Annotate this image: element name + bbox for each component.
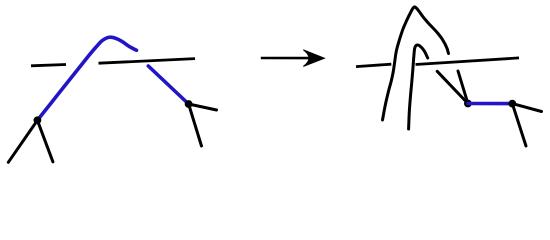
arrow between diagrams: shaft [261, 57, 310, 60]
right diagram: vertex V3 dot [464, 100, 472, 108]
left diagram: vertex V2 dot [185, 100, 193, 108]
right diagram: V4 leg down [512, 104, 526, 146]
right diagram: blue edge (now slid below the strand) [468, 102, 512, 106]
right diagram: small arch lower continuation below strand to vertex V3 [437, 71, 468, 103]
left diagram: horizontal strand, main right piece [99, 59, 196, 64]
left diagram: V1 leg down-right [37, 120, 53, 162]
left diagram: V1 leg down-left [8, 120, 37, 162]
right diagram: big arch (leg of vertex V3 pulled over the strand), upper part [383, 7, 449, 120]
left diagram: V2 leg down [189, 104, 202, 146]
arrow between diagrams: head [303, 50, 324, 67]
right diagram: horizontal strand, left piece [356, 64, 391, 66]
right diagram: small arch (second leg of V3 pulled over the strand), upper part [409, 45, 428, 129]
left diagram: horizontal strand, left piece (broken for blue overcrossing) [31, 65, 66, 66]
right diagram: V4 leg right [512, 104, 541, 112]
left diagram: blue edge under piece (undercrossing below strand to vertex V2) [148, 66, 188, 104]
left diagram: blue edge over-arc (from vertex V1 up over the strand) [37, 37, 136, 120]
left diagram: V2 leg right [189, 104, 217, 110]
right diagram: vertex V4 dot [508, 100, 516, 108]
left diagram: vertex V1 dot [34, 116, 42, 124]
right diagram: big arch lower continuation below strand to vertex V3 [458, 71, 468, 104]
right diagram: horizontal strand, long right piece (over both arch right sides) [416, 58, 520, 65]
